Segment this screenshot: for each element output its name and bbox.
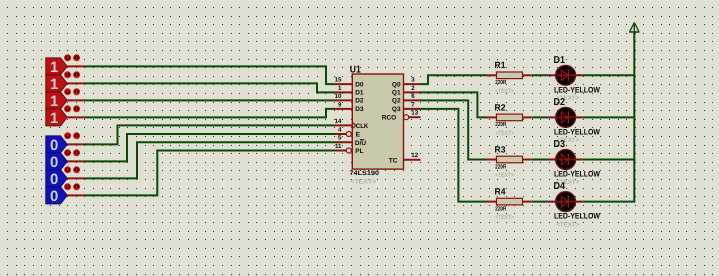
pin 15 D0 stub (335, 83, 353, 85)
svg-text:9: 9 (338, 101, 342, 108)
wire D3 (1 to pin 9) (85, 109, 335, 118)
logic state S3 (1) (46, 92, 67, 110)
LED D3 (548, 150, 583, 170)
svg-text:D1: D1 (355, 90, 364, 97)
svg-text:U1: U1 (350, 65, 361, 76)
LED D2 (548, 108, 583, 128)
svg-text:PL: PL (355, 148, 363, 155)
pin 13 RCO stub (404, 115, 409, 120)
logic state S2 (1) (46, 75, 67, 93)
svg-text:R1: R1 (495, 60, 506, 70)
pin 9 D3 stub (335, 108, 353, 110)
wire E (0 to pin 4) (85, 134, 335, 161)
svg-text:13: 13 (411, 110, 418, 117)
lead of S7 (0) (67, 177, 84, 179)
power bus wire (633, 32, 635, 202)
svg-text:D0: D0 (355, 81, 364, 88)
svg-text:11: 11 (335, 143, 342, 150)
svg-text:3: 3 (411, 77, 415, 84)
toggle buttons of S3 (1) (65, 89, 80, 95)
wire R3 to D3 (532, 159, 548, 161)
wire Q3 to R4 (421, 109, 486, 202)
wire D3 to power bus (583, 159, 636, 161)
svg-text:14: 14 (335, 118, 342, 125)
wire R2 to D2 (532, 116, 548, 118)
svg-text:D3: D3 (355, 106, 364, 113)
svg-text:0: 0 (50, 171, 58, 188)
lead of S5 (0) (67, 143, 84, 145)
svg-text:LED-YELLOW: LED-YELLOW (554, 170, 600, 179)
svg-text:12: 12 (411, 152, 418, 159)
svg-text:220R: 220R (495, 79, 507, 86)
svg-text:7: 7 (411, 101, 415, 108)
logic state S5 (0) (46, 136, 67, 154)
pin 3 Q0 stub (404, 83, 421, 85)
svg-text:RCO: RCO (382, 115, 396, 122)
svg-text:<TEXT>: <TEXT> (350, 179, 377, 186)
toggle buttons of S8 (0) (65, 184, 80, 190)
pin 2 Q1 stub (404, 91, 421, 93)
wire PL (0 to pin 11) (85, 151, 335, 196)
pin 1 D1 stub (335, 91, 353, 93)
resistor R1 (486, 72, 532, 79)
wire D2 (1 to pin 10) (85, 99, 335, 101)
svg-text:0: 0 (50, 188, 58, 205)
svg-text:0: 0 (50, 154, 58, 171)
logic state S1 (1) (46, 58, 67, 76)
svg-text:<TEXT>: <TEXT> (556, 221, 579, 228)
logic state S4 (1) (46, 109, 67, 127)
svg-text:<TEXT>: <TEXT> (495, 130, 514, 137)
svg-text:0: 0 (50, 137, 58, 154)
svg-text:1: 1 (50, 110, 58, 127)
svg-text:<TEXT>: <TEXT> (495, 172, 514, 179)
svg-text:LED-YELLOW: LED-YELLOW (554, 85, 600, 94)
svg-text:1: 1 (50, 59, 58, 76)
lead of S1 (1) (67, 65, 84, 67)
pin 12 TC stub (404, 159, 421, 161)
pin 11 PL stub (335, 150, 347, 152)
svg-text:R2: R2 (495, 102, 506, 112)
svg-text:TC: TC (389, 158, 398, 165)
toggle buttons of S6 (0) (65, 150, 80, 156)
svg-text:D2: D2 (554, 97, 566, 108)
svg-text:<TEXT>: <TEXT> (495, 214, 514, 221)
svg-text:D1: D1 (554, 55, 566, 66)
wire CLK (0 to pin 14) (85, 125, 335, 144)
logic state S8 (0) (46, 187, 67, 205)
wire R4 to D4 (532, 201, 548, 203)
svg-text:1: 1 (50, 76, 58, 93)
svg-text:220R: 220R (495, 163, 507, 170)
toggle buttons of S7 (0) (65, 167, 80, 173)
svg-text:Q3: Q3 (392, 106, 401, 113)
svg-text:LED-YELLOW: LED-YELLOW (554, 128, 600, 137)
pin 10 D2 stub (335, 99, 353, 101)
wire D/U (0 to pin 5) (85, 142, 335, 178)
svg-text:D4: D4 (554, 181, 566, 192)
wire R1 to D1 (532, 74, 548, 76)
op IC U1 74LS190 body (352, 74, 403, 169)
wire D1 to power bus (583, 74, 636, 76)
wire D4 to power bus (583, 201, 636, 203)
svg-text:CLK: CLK (356, 123, 369, 130)
svg-text:Q1: Q1 (392, 90, 401, 97)
wire D2 to power bus (583, 116, 636, 118)
svg-text:Q2: Q2 (392, 98, 401, 105)
wire Q0 to R1 (421, 75, 486, 84)
toggle buttons of S1 (1) (65, 55, 80, 61)
svg-text:R3: R3 (495, 144, 506, 154)
lead of S6 (0) (67, 160, 84, 162)
toggle buttons of S4 (1) (65, 106, 80, 112)
lead of S8 (0) (67, 194, 84, 196)
svg-text:Q0: Q0 (392, 81, 401, 88)
toggle buttons of S2 (1) (65, 72, 80, 78)
pin 6 Q2 stub (404, 99, 421, 101)
wire Q2 to R3 (421, 100, 486, 159)
LED D1 (548, 66, 583, 86)
pin 14 CLK stub (335, 124, 353, 126)
svg-text:D3: D3 (554, 139, 566, 150)
toggle buttons of S5 (0) (65, 133, 80, 139)
svg-text:15: 15 (335, 77, 342, 84)
logic state S7 (0) (46, 170, 67, 188)
logic state S6 (0) (46, 153, 67, 171)
svg-text:E: E (356, 132, 361, 139)
svg-text:D2: D2 (355, 98, 364, 105)
svg-text:4: 4 (338, 126, 342, 133)
svg-text:LED-YELLOW: LED-YELLOW (554, 212, 600, 221)
pin 4 E stub (335, 133, 347, 135)
pin 7 Q3 stub (404, 108, 421, 110)
resistor R3 (486, 156, 532, 163)
svg-text:10: 10 (335, 93, 342, 100)
svg-text:220R: 220R (495, 205, 507, 212)
svg-text:R4: R4 (495, 187, 506, 197)
svg-text:2: 2 (411, 85, 415, 92)
svg-text:1: 1 (50, 93, 58, 110)
lead of S4 (1) (67, 116, 84, 118)
svg-text:1: 1 (338, 85, 342, 92)
resistor R2 (486, 114, 532, 121)
lead of S2 (1) (67, 82, 84, 84)
clock notch pin 14 (353, 123, 356, 129)
lead of S3 (1) (67, 99, 84, 101)
wire D1 (1 to pin 1) (85, 83, 335, 92)
svg-text:74LS190: 74LS190 (350, 170, 380, 177)
svg-text:<TEXT>: <TEXT> (495, 88, 514, 95)
wire D0 (1 to pin 15) (85, 66, 335, 84)
svg-text:220R: 220R (495, 121, 507, 128)
svg-text:6: 6 (411, 93, 415, 100)
power symbol VCC arrow (629, 23, 639, 32)
svg-text:5: 5 (338, 135, 342, 142)
svg-text:D/U: D/U (355, 140, 367, 147)
resistor R4 (486, 198, 532, 205)
pin 5 D/U stub (335, 141, 353, 143)
wire Q1 to R2 (421, 92, 486, 117)
LED D4 (548, 192, 583, 212)
